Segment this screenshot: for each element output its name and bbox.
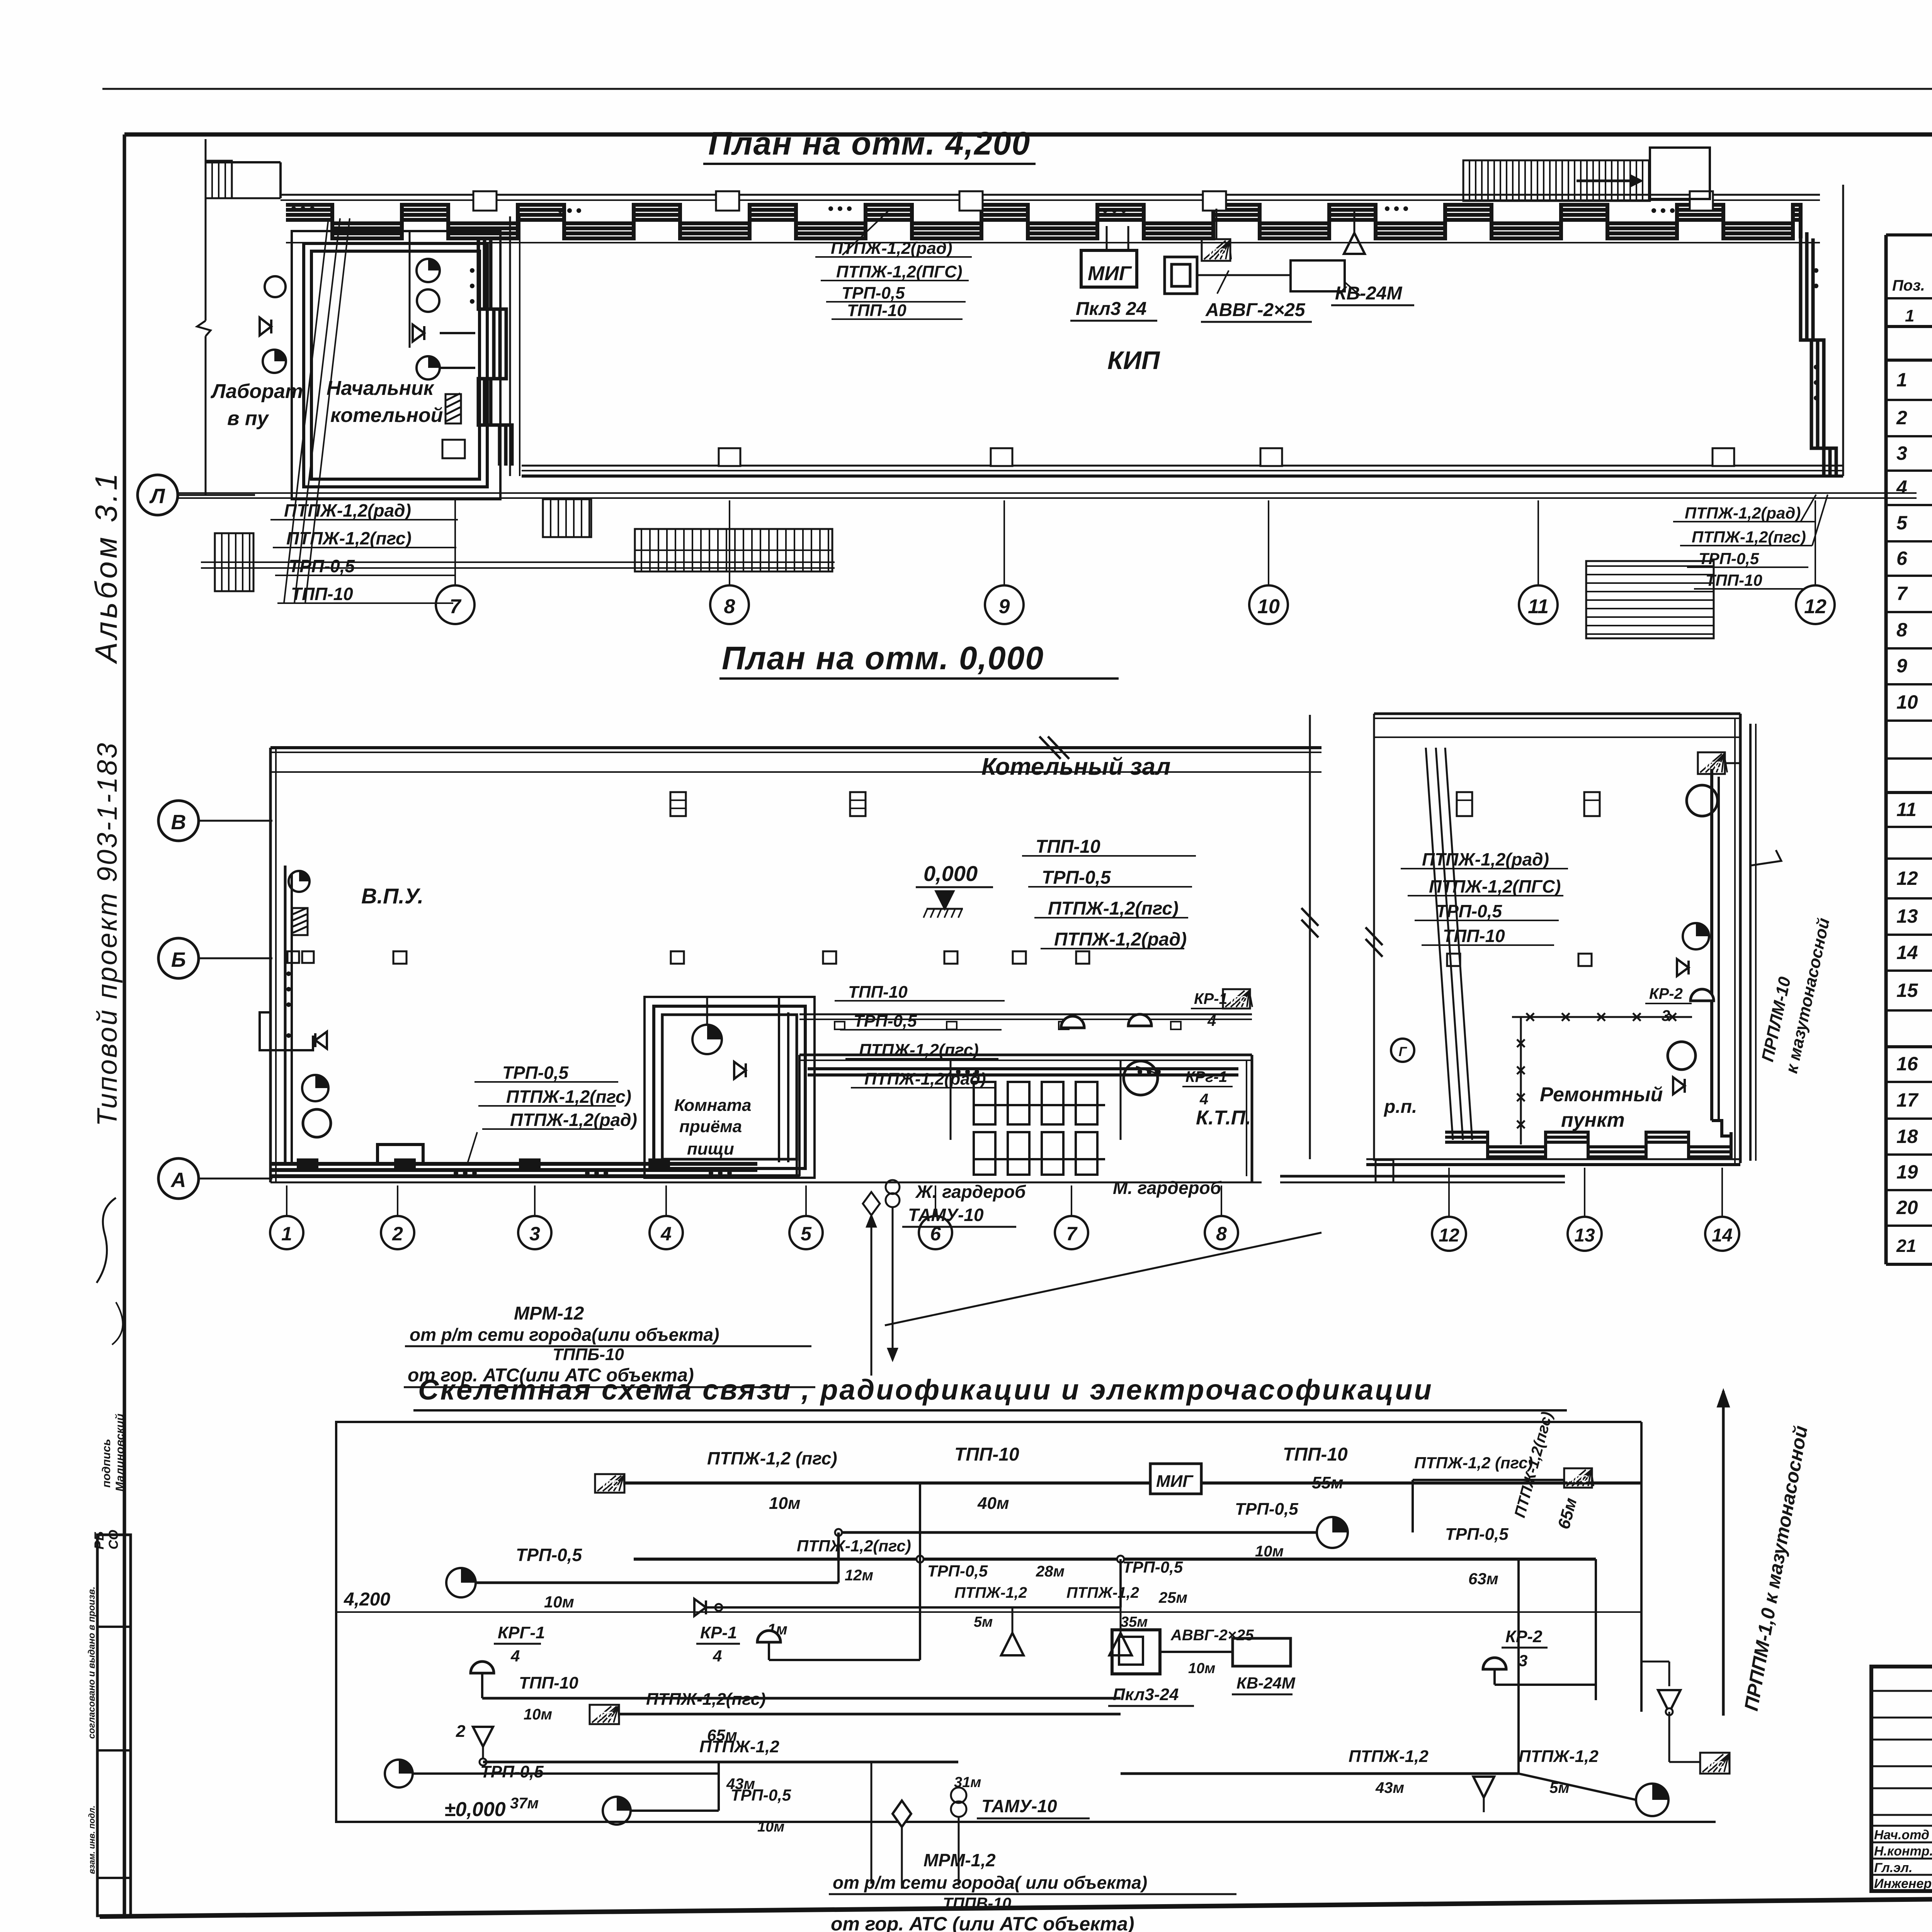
schema bus2 right part xyxy=(835,1517,1348,1559)
schema right triangle xyxy=(1641,1662,1680,1739)
plan0 bottom cable band xyxy=(270,1145,1262,1182)
svg-text:ПТПЖ-1,2(рад): ПТПЖ-1,2(рад) xyxy=(284,500,411,520)
svg-text:от гор. АТС (или АТС объекта): от гор. АТС (или АТС объекта) xyxy=(831,1913,1134,1932)
repair plan right wall xyxy=(1735,714,1740,1163)
svg-text:11: 11 xyxy=(1896,799,1917,820)
svg-text:16: 16 xyxy=(1896,1053,1918,1075)
repair plan rp label xyxy=(1383,1097,1417,1117)
svg-text:7: 7 xyxy=(1896,583,1908,604)
svg-text:4,200: 4,200 xyxy=(344,1589,390,1610)
plan4200 lower corridor hatch right xyxy=(1586,561,1714,638)
page frame top thick line xyxy=(124,133,1932,137)
schema label TPP-10 40m xyxy=(954,1444,1019,1513)
repair plan top wall xyxy=(1374,714,1740,718)
schema line PTPZh 43m xyxy=(480,1737,958,1812)
svg-text:Б: Б xyxy=(171,948,186,971)
svg-text:5: 5 xyxy=(801,1223,812,1245)
svg-text:ТПП-10: ТПП-10 xyxy=(847,301,906,320)
schema MIG box xyxy=(1150,1464,1201,1494)
svg-text:ТПП-10: ТПП-10 xyxy=(1036,837,1100,857)
svg-text:2: 2 xyxy=(456,1722,466,1741)
svg-text:18: 18 xyxy=(1896,1126,1918,1147)
svg-text:ПТПЖ-1,2: ПТПЖ-1,2 xyxy=(1066,1584,1139,1601)
margin label: album 3.1 xyxy=(89,470,123,664)
repair plan label stack xyxy=(1401,849,1568,946)
plan0 boiler hall label xyxy=(981,753,1171,780)
schema line to right clock xyxy=(1519,1774,1636,1800)
svg-text:ПТПЖ-1,2(пгс): ПТПЖ-1,2(пгс) xyxy=(1692,528,1806,546)
svg-text:12: 12 xyxy=(1439,1225,1459,1246)
svg-text:Котельный зал: Котельный зал xyxy=(981,753,1171,780)
plan0 left symbols: clock top xyxy=(289,871,310,892)
repair plan PGS box xyxy=(1698,752,1740,774)
plan4200 room labels xyxy=(210,377,443,430)
svg-text:пищи: пищи xyxy=(687,1139,734,1158)
svg-text:Начальник: Начальник xyxy=(327,377,435,400)
svg-text:ТАМУ-10: ТАМУ-10 xyxy=(981,1796,1057,1816)
plan4200 canopy lines xyxy=(201,562,835,568)
svg-text:ПТПЖ-1,2(ПГС): ПТПЖ-1,2(ПГС) xyxy=(1429,876,1561,896)
plan4200 small stair hatch below room xyxy=(543,499,591,537)
svg-text:Ремонтный: Ремонтный xyxy=(1540,1083,1663,1106)
svg-text:ТАМУ-10: ТАМУ-10 xyxy=(908,1205,984,1225)
schema PGS box left xyxy=(595,1474,624,1493)
schema KV-24M box xyxy=(1232,1638,1296,1694)
plan0 passage vertical cables xyxy=(779,997,797,1176)
schema wire PGS to MIG xyxy=(624,1481,1150,1485)
svg-text:12м: 12м xyxy=(845,1567,873,1584)
svg-text:ПТПЖ-1,2(пгс): ПТПЖ-1,2(пгс) xyxy=(646,1690,766,1709)
plan4200 room symbols left group xyxy=(260,276,286,373)
svg-text:31м: 31м xyxy=(954,1774,981,1791)
repair plan conduit line right xyxy=(1750,724,1781,1161)
title block signature grid xyxy=(1871,1667,1932,1891)
plan4200 KIP label xyxy=(1107,346,1160,374)
plan4200 hall bottom wall columns xyxy=(719,448,1734,466)
svg-text:3: 3 xyxy=(1519,1651,1527,1670)
plan4200 room symbols right group xyxy=(413,259,475,379)
plan4200 speaker triangle xyxy=(1344,209,1365,254)
plan4200 axis L line across xyxy=(178,493,1917,498)
repair plan hall column boxes xyxy=(1457,792,1600,816)
svg-text:25м: 25м xyxy=(1158,1589,1187,1606)
plan0 right cable label stack upper xyxy=(1022,837,1196,950)
plan0 TAMU-10 label xyxy=(902,1205,1016,1227)
svg-text:ТРП-0,5: ТРП-0,5 xyxy=(731,1786,791,1804)
plan0 hall column boxes xyxy=(670,792,866,816)
plan4200 left cable label stack xyxy=(270,500,458,604)
svg-text:МИГ: МИГ xyxy=(1088,262,1132,285)
plan4200 label AVVG-2x25 xyxy=(1201,300,1312,322)
schema feeder verticals xyxy=(871,1762,959,1889)
plan4200 top cable meander band xyxy=(286,205,1801,238)
svg-text:Ж. гардероб: Ж. гардероб xyxy=(915,1182,1026,1202)
plan0 level mark 0.000 xyxy=(916,861,993,918)
plan4200 PGS hatched box xyxy=(1202,209,1231,261)
svg-text:9: 9 xyxy=(999,595,1010,618)
title block signatures text xyxy=(1874,1827,1932,1891)
svg-text:37м: 37м xyxy=(510,1795,539,1812)
plan4200 primary clock nested squares xyxy=(1165,257,1197,294)
schema bus3 long xyxy=(634,1556,1596,1563)
plan4200 MIG box xyxy=(1081,250,1137,287)
svg-text:КВ-24М: КВ-24М xyxy=(1335,283,1403,304)
svg-text:АВВГ-2×25: АВВГ-2×25 xyxy=(1170,1627,1254,1644)
repair plan left slant cables xyxy=(1426,748,1472,1140)
svg-text:13: 13 xyxy=(1896,905,1918,927)
svg-text:ПТПЖ-1,2(пгс): ПТПЖ-1,2(пгс) xyxy=(1048,898,1179,919)
svg-text:Альбом 3.1: Альбом 3.1 xyxy=(89,470,123,664)
svg-text:Типовой проект 903-1-183: Типовой проект 903-1-183 xyxy=(92,742,123,1126)
plan0 wall anchor squares xyxy=(393,951,1089,964)
plan0 left wall cable run xyxy=(285,866,292,1163)
svg-text:35м: 35м xyxy=(1121,1614,1148,1630)
svg-text:Пкл3 24: Пкл3 24 xyxy=(1076,299,1146,319)
repair plan bottom cable meander xyxy=(1445,1132,1731,1157)
svg-text:ТРП-0,5: ТРП-0,5 xyxy=(502,1063,569,1083)
repair plan conduit rotated label xyxy=(1758,916,1833,1075)
plan4200 label KV-24M xyxy=(1331,282,1414,305)
plan4200 right wall dotted column xyxy=(1814,268,1818,400)
svg-text:ПГС: ПГС xyxy=(1567,1473,1588,1485)
svg-text:±0,000: ±0,000 xyxy=(444,1798,506,1821)
repair plan right cable run xyxy=(1712,769,1731,1136)
svg-text:9: 9 xyxy=(1896,655,1907,677)
schema KRG-1/4 label xyxy=(494,1623,545,1665)
schema TAMU symbol xyxy=(951,1774,1090,1818)
svg-text:от р/т сети города(или объекта: от р/т сети города(или объекта) xyxy=(410,1325,719,1345)
svg-text:Н.контр.: Н.контр. xyxy=(1874,1844,1932,1859)
repair plan anchor squares xyxy=(1447,954,1592,966)
svg-text:0,000: 0,000 xyxy=(923,861,978,886)
plan0 dining room label xyxy=(674,1096,751,1158)
plan0 TAMU drop arrows xyxy=(867,1207,897,1376)
svg-text:Инженер: Инженер xyxy=(1874,1876,1932,1891)
plan0 cloakroom cable run xyxy=(808,1069,1238,1075)
plan4200 lower staircase hatch left xyxy=(215,533,253,591)
svg-text:ТРП-0,5: ТРП-0,5 xyxy=(1445,1525,1509,1544)
schema clock left bottom xyxy=(385,1760,719,1787)
repair plan beam line xyxy=(1374,736,1740,738)
plan0 crane beam line xyxy=(270,771,1321,773)
svg-text:15: 15 xyxy=(1896,980,1918,1001)
svg-text:Поз.: Поз. xyxy=(1892,277,1925,294)
svg-text:АВВГ-2×25: АВВГ-2×25 xyxy=(1205,300,1306,320)
svg-text:КРГ-1: КРГ-1 xyxy=(498,1623,545,1642)
svg-text:ПГС: ПГС xyxy=(1703,1759,1725,1770)
table rows 16-20 xyxy=(1896,1053,1932,1075)
svg-text:19: 19 xyxy=(1896,1161,1918,1183)
svg-text:4: 4 xyxy=(713,1647,722,1665)
schema label TPP-10 55m xyxy=(1283,1444,1348,1492)
svg-text:13: 13 xyxy=(1574,1225,1595,1246)
svg-text:4: 4 xyxy=(1199,1091,1208,1108)
plan4200 KV-24M box xyxy=(1291,260,1345,291)
schema level label 0.000 xyxy=(444,1798,506,1821)
svg-text:КР-2: КР-2 xyxy=(1505,1627,1543,1646)
equipment table grid xyxy=(1886,235,1932,1264)
plan4200 lower corridor ladder xyxy=(635,529,832,571)
svg-text:ТПП-10: ТПП-10 xyxy=(848,983,908,1002)
plan0 left wall jog xyxy=(260,1012,313,1050)
repair plan left edge xyxy=(1366,714,1383,1161)
plan4200 grid circles 7-12 xyxy=(436,500,1835,624)
plan4200 band inner wall line xyxy=(286,242,1820,243)
schema label TRP-0.5 10m mid xyxy=(1235,1500,1298,1560)
plan0 KR-1/4 upper label xyxy=(1191,990,1236,1029)
svg-text:КР-2: КР-2 xyxy=(1649,985,1683,1002)
svg-text:ТППВ-10: ТППВ-10 xyxy=(943,1894,1011,1912)
axis marker L xyxy=(138,475,255,515)
schema label PTPZh pgs right xyxy=(1414,1454,1533,1472)
svg-text:ПТПЖ-1,2(пгс): ПТПЖ-1,2(пгс) xyxy=(797,1537,911,1555)
title: plan at elev 4.200 xyxy=(703,125,1036,164)
svg-text:в пу: в пу xyxy=(227,407,270,430)
svg-text:10м: 10м xyxy=(544,1593,574,1611)
svg-text:11: 11 xyxy=(1528,595,1549,618)
plan0 dining room speaker xyxy=(734,1062,746,1079)
svg-text:КРг-1: КРг-1 xyxy=(1185,1068,1227,1085)
plan4200 vertical cable meander to hall xyxy=(470,240,512,466)
svg-text:Г: Г xyxy=(1399,1044,1408,1059)
svg-text:28м: 28м xyxy=(1036,1563,1065,1580)
svg-text:12: 12 xyxy=(1896,867,1918,889)
margin stamp boxes xyxy=(87,1535,131,1916)
title: plan at elev 0.000 xyxy=(719,640,1119,679)
schema diamond xyxy=(893,1801,911,1827)
schema speaker row xyxy=(694,1584,1148,1638)
repair plan bottom wall xyxy=(1366,1159,1740,1165)
svg-text:МИГ: МИГ xyxy=(1156,1472,1194,1491)
repair plan grid circles 12-14 xyxy=(1432,1168,1739,1251)
schema feeder text bottom xyxy=(827,1850,1242,1932)
svg-text:КИП: КИП xyxy=(1107,346,1160,374)
svg-text:ПТПЖ-1,2(рад): ПТПЖ-1,2(рад) xyxy=(1054,929,1187,950)
plan4200 left room walls xyxy=(292,216,520,499)
svg-text:17: 17 xyxy=(1896,1089,1919,1111)
svg-text:Л: Л xyxy=(149,485,165,508)
schema wire MIG right xyxy=(1201,1481,1641,1485)
table header number row xyxy=(1905,306,1932,325)
plan4200 hatched wall box xyxy=(446,393,461,423)
svg-text:ПТПЖ-1,2(рад): ПТПЖ-1,2(рад) xyxy=(1685,504,1801,522)
schema right risers and symbols xyxy=(1349,1747,1668,1816)
svg-text:Скелетная схема связи , ради: Скелетная схема связи , радиофикации и э… xyxy=(418,1374,1433,1406)
svg-text:М. гардероб: М. гардероб xyxy=(1113,1178,1222,1198)
plan0 KRG-1/4 fraction label xyxy=(1136,1066,1233,1108)
svg-text:8: 8 xyxy=(1896,619,1907,641)
table rows 1-10 xyxy=(1896,369,1932,392)
plan0 bottom band blobs xyxy=(298,1159,732,1175)
plan0 PGS box on beam xyxy=(1223,989,1252,1009)
schema labels on bus3 xyxy=(797,1525,1509,1606)
repair plan room label xyxy=(1540,1083,1663,1131)
plan0 lockers xyxy=(974,1082,1105,1175)
schema KR-1/4 label xyxy=(696,1623,740,1665)
plan0 cloakroom outer walls xyxy=(799,1055,1252,1182)
plan4200 column squares on band xyxy=(473,191,1713,211)
svg-text:Нач.отд: Нач.отд xyxy=(1874,1828,1929,1842)
svg-text:взам. инв. подл.: взам. инв. подл. xyxy=(87,1806,97,1874)
svg-text:ТРП-0,5: ТРП-0,5 xyxy=(842,284,905,303)
plan0 left label stack TRP xyxy=(468,1063,637,1163)
plan0 TAMU transformer symbol xyxy=(863,1180,900,1215)
axis marker B xyxy=(158,938,272,978)
schema numbered triangle 2 xyxy=(456,1722,493,1765)
svg-text:ТРП-0,5: ТРП-0,5 xyxy=(516,1545,583,1565)
svg-text:10м: 10м xyxy=(1255,1543,1284,1560)
schema wire PGS lower xyxy=(619,1690,1121,1744)
svg-text:1: 1 xyxy=(1896,369,1907,391)
svg-text:подпись: подпись xyxy=(100,1439,113,1488)
svg-text:ТРП-0,5: ТРП-0,5 xyxy=(480,1762,544,1781)
svg-text:12: 12 xyxy=(1804,595,1827,618)
repair plan x-line vertical xyxy=(1517,1017,1525,1145)
plan4200 right wall vertical meander xyxy=(1801,185,1843,476)
svg-text:ПТПЖ-1,2(ПГС): ПТПЖ-1,2(ПГС) xyxy=(836,262,963,281)
svg-text:6: 6 xyxy=(930,1223,941,1245)
repair plan symbols column xyxy=(1668,785,1718,1094)
svg-text:ПТПЖ-1,2: ПТПЖ-1,2 xyxy=(954,1584,1027,1601)
svg-text:ТППБ-10: ТППБ-10 xyxy=(553,1345,624,1364)
table rows 11-15 xyxy=(1896,798,1932,821)
svg-text:ПТПЖ-1,2(рад): ПТПЖ-1,2(рад) xyxy=(510,1110,637,1130)
schema bus2 with clock xyxy=(446,1568,838,1597)
svg-text:4: 4 xyxy=(1207,1012,1216,1029)
svg-text:8: 8 xyxy=(1216,1223,1227,1245)
plan4200 hall bottom wall xyxy=(522,466,1843,476)
plan4200 band dotted runs xyxy=(291,206,1675,213)
svg-text:В: В xyxy=(171,811,186,834)
svg-text:14: 14 xyxy=(1712,1225,1732,1246)
svg-text:21: 21 xyxy=(1896,1236,1916,1256)
schema frame box xyxy=(336,1422,1716,1822)
svg-text:ПГС: ПГС xyxy=(1701,759,1722,771)
plan0 long diagonal leader xyxy=(885,1233,1321,1325)
table row11 qty shift xyxy=(0,0,0,0)
schema clock 2 bottom xyxy=(603,1774,791,1835)
plan0 dining room clock xyxy=(692,997,722,1054)
plan4200 right cable label stack xyxy=(1673,495,1828,589)
plan0 KTP circle xyxy=(1124,1061,1158,1095)
svg-text:пункт: пункт xyxy=(1561,1109,1625,1131)
plan0 left hatched box xyxy=(292,908,308,935)
svg-text:4: 4 xyxy=(660,1223,672,1245)
margin label RB SO xyxy=(92,1530,121,1549)
plan0 left speaker xyxy=(315,1032,327,1049)
plan4200 left room cable run xyxy=(304,243,487,487)
svg-text:ТПП-10: ТПП-10 xyxy=(1283,1444,1348,1465)
svg-text:ПТПЖ-1,2(пгс): ПТПЖ-1,2(пгс) xyxy=(859,1041,979,1060)
plan0 KTP area xyxy=(1280,1160,1565,1182)
plan0 right edge line with break xyxy=(1301,715,1318,1159)
svg-text:ПГС: ПГС xyxy=(593,1709,614,1721)
plan0 left clock lower xyxy=(302,1075,328,1101)
svg-text:Пкл3-24: Пкл3-24 xyxy=(1113,1685,1179,1704)
schema PRPPM rotated label xyxy=(1740,1424,1812,1713)
svg-text:ТРП-0,5: ТРП-0,5 xyxy=(1699,549,1759,568)
svg-text:КР-1: КР-1 xyxy=(700,1623,737,1642)
svg-text:ПГС: ПГС xyxy=(598,1478,619,1490)
svg-text:котельной: котельной xyxy=(330,404,443,427)
svg-text:ТРП-0,5: ТРП-0,5 xyxy=(1122,1558,1183,1576)
svg-text:ПГС: ПГС xyxy=(1205,246,1226,258)
margin label: standard design 903-1-183 xyxy=(92,742,123,1126)
table header texts xyxy=(1892,245,1932,294)
plan0 top boundary wall xyxy=(270,736,1321,759)
svg-text:ТРП-0,5: ТРП-0,5 xyxy=(289,556,355,576)
svg-text:р.п.: р.п. xyxy=(1383,1097,1417,1117)
svg-text:20: 20 xyxy=(1896,1197,1918,1218)
svg-text:10м: 10м xyxy=(524,1706,552,1723)
plan4200 top wall thin lines xyxy=(281,195,1820,200)
main title block frame xyxy=(1871,1667,1932,1891)
page frame bottom border xyxy=(100,1892,1932,1917)
svg-text:3: 3 xyxy=(1662,1007,1670,1024)
schema PGS box bottom right xyxy=(1669,1739,1730,1774)
schema PTPZh 65m rotated xyxy=(1511,1410,1581,1531)
schema wire to PGS right xyxy=(1413,1480,1564,1532)
svg-text:10: 10 xyxy=(1257,595,1280,618)
svg-text:К.Т.П.: К.Т.П. xyxy=(1196,1107,1251,1129)
svg-text:43м: 43м xyxy=(1375,1779,1404,1796)
page frame left border xyxy=(123,134,126,1916)
plan4200 label Pkl3 24 xyxy=(1070,299,1157,321)
title: skeleton schema xyxy=(413,1374,1567,1410)
svg-text:ПТПЖ-1,2(пгс): ПТПЖ-1,2(пгс) xyxy=(286,528,412,548)
svg-text:4: 4 xyxy=(1896,476,1907,498)
svg-text:3: 3 xyxy=(1896,442,1907,464)
schema PRPPM conduit arrow xyxy=(902,1391,1729,1716)
svg-text:СО: СО xyxy=(106,1530,121,1549)
plan4200 small square lower xyxy=(442,440,465,458)
svg-text:7: 7 xyxy=(1066,1223,1078,1245)
plan0 cloakroom labels xyxy=(915,1178,1222,1202)
axis marker V xyxy=(158,801,272,841)
plan0 mid cable label stack lower xyxy=(835,983,1005,1088)
svg-text:3: 3 xyxy=(529,1223,540,1245)
svg-text:40м: 40м xyxy=(977,1494,1009,1513)
plan4200 mid staircase hatch xyxy=(1463,160,1650,201)
page frame top thin line xyxy=(102,88,1932,90)
margin signatures xyxy=(97,1198,126,1492)
plan0 cloakroom beam with ticks xyxy=(799,1014,1252,1029)
plan4200 left staircase hatch xyxy=(206,161,232,198)
schema vertical risers xyxy=(838,1483,1596,1774)
svg-text:14: 14 xyxy=(1896,942,1918,963)
plan4200 wire Pkl to KV xyxy=(1197,270,1291,294)
axis marker A xyxy=(158,1158,272,1199)
svg-text:5м: 5м xyxy=(974,1614,993,1630)
svg-text:5: 5 xyxy=(1896,512,1908,534)
svg-text:1: 1 xyxy=(1905,306,1914,325)
schema label TRP-0.5 10m left xyxy=(516,1545,583,1611)
svg-text:8: 8 xyxy=(724,595,735,618)
plan4200 stair outline xyxy=(206,162,281,198)
svg-text:55м: 55м xyxy=(1312,1473,1344,1492)
schema PGS left lower xyxy=(590,1705,619,1724)
svg-text:ТРП-0,5: ТРП-0,5 xyxy=(1235,1500,1298,1519)
schema bottom wire right xyxy=(1121,1698,1636,1785)
schema level line 4.200 xyxy=(336,1589,1641,1612)
svg-text:ТПП-10: ТПП-10 xyxy=(1706,571,1762,589)
table row 21 xyxy=(1896,1236,1932,1256)
svg-text:63м: 63м xyxy=(1468,1570,1498,1588)
svg-text:ТРП-0,5: ТРП-0,5 xyxy=(1042,867,1111,888)
svg-text:КВ-24М: КВ-24М xyxy=(1236,1674,1296,1692)
schema label PTPZh 1.2 pgs 10m xyxy=(707,1448,837,1513)
schema Pkl3-24 device xyxy=(1108,1630,1194,1706)
